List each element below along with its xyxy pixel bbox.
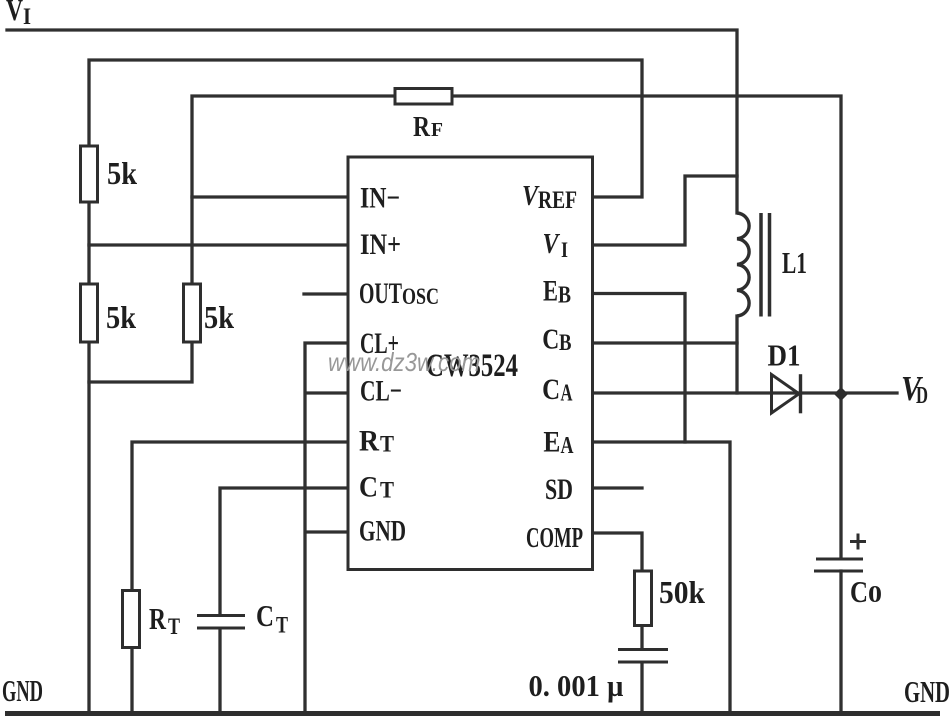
svg-text:V: V [543,229,561,260]
svg-text:0: 0 [868,582,882,608]
svg-text:REF: REF [538,187,577,214]
svg-text:5k: 5k [107,155,137,191]
svg-text:IN+: IN+ [360,228,401,261]
svg-text:D: D [916,383,928,409]
svg-text:C: C [256,598,274,633]
svg-text:E: E [543,426,560,459]
svg-text:R: R [359,425,379,458]
svg-text:C: C [542,373,560,406]
svg-text:C: C [359,471,378,504]
svg-text:R: R [149,601,166,636]
svg-text:0. 001 µ: 0. 001 µ [529,668,624,703]
svg-text:T: T [168,614,180,639]
svg-text:B: B [558,283,571,309]
svg-text:E: E [543,275,558,308]
svg-text:GND: GND [904,674,950,709]
svg-text:www.dz3w.com: www.dz3w.com [328,347,480,377]
svg-text:R: R [413,111,431,143]
svg-text:D1: D1 [768,338,801,373]
svg-text:CL−: CL− [360,375,402,408]
svg-text:IN−: IN− [360,182,400,215]
svg-text:T: T [276,613,288,638]
svg-text:C: C [850,574,868,609]
svg-text:T: T [380,478,394,503]
svg-text:A: A [561,381,573,407]
svg-text:F: F [431,119,443,141]
svg-text:C: C [542,324,559,356]
svg-text:5k: 5k [204,299,234,335]
svg-text:T: T [380,432,394,457]
svg-text:COMP: COMP [526,523,583,554]
svg-text:L1: L1 [782,245,807,280]
svg-text:A: A [561,433,574,459]
svg-text:5k: 5k [106,299,136,335]
svg-text:GND: GND [359,515,406,548]
svg-text:OUT: OUT [359,277,402,310]
svg-text:SD: SD [545,473,573,506]
svg-text:GND: GND [2,673,43,708]
svg-text:OSC: OSC [402,284,439,309]
svg-text:I: I [561,237,568,262]
svg-text:50k: 50k [659,574,705,610]
svg-text:B: B [559,330,572,355]
svg-text:I: I [23,4,31,29]
svg-text:V: V [6,0,23,27]
